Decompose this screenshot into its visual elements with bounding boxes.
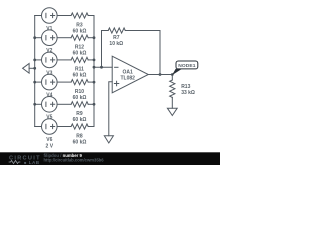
svg-text:V3: V3 (46, 70, 52, 76)
svg-text:33 kΩ: 33 kΩ (181, 90, 195, 96)
wire output to R13 (171, 75, 173, 81)
wire row 4 left lead (35, 81, 42, 83)
svg-text:60 kΩ: 60 kΩ (73, 28, 87, 34)
wire right summing bus (93, 16, 95, 127)
voltage source V4 (42, 74, 58, 90)
resistor R7 (108, 28, 125, 33)
wire row 1 middle lead (57, 15, 71, 17)
ground (left, input common) (23, 64, 30, 74)
wire row 6 right lead (88, 126, 94, 128)
voltage source V3 (42, 52, 58, 68)
junction right bus row 5 (93, 103, 96, 106)
wire row 5 right lead (88, 103, 94, 105)
wire R7 right to output (125, 31, 160, 75)
svg-text:60 kΩ: 60 kΩ (73, 73, 87, 79)
wire row 3 middle lead (57, 59, 71, 61)
voltage source V2 (42, 30, 58, 46)
wire row 5 middle lead (57, 103, 71, 105)
junction R7 to inverting input (100, 66, 103, 69)
junction output node (171, 73, 174, 76)
wire row 3 left lead (35, 59, 42, 61)
wire R7 left vertical (102, 31, 109, 68)
voltage source V5 (42, 97, 58, 113)
junction left bus row 4 (33, 81, 36, 84)
svg-text:2 V: 2 V (46, 143, 54, 149)
junction ground tap (33, 67, 36, 70)
resistor R11 (71, 57, 88, 62)
wire row 5 left lead (35, 103, 42, 105)
svg-text:NODE1: NODE1 (178, 63, 196, 69)
wire row 6 left lead (35, 126, 42, 128)
svg-text:60 kΩ: 60 kΩ (73, 51, 87, 57)
wire left bus (34, 16, 36, 127)
wire non-inverting input to ground (109, 82, 112, 136)
junction left bus row 3 (33, 59, 36, 62)
node NODE1 flag (172, 69, 182, 76)
junction right bus row 2 (93, 36, 96, 39)
wire op-amp output (148, 74, 172, 76)
ground (below R13) (167, 108, 177, 115)
svg-text:http://circuitlab.com/cwm35b6: http://circuitlab.com/cwm35b6 (44, 158, 105, 163)
svg-text:V1: V1 (46, 26, 52, 32)
ground (op-amp non-inverting) (104, 136, 113, 143)
svg-text:10 kΩ: 10 kΩ (109, 41, 123, 47)
wire row 4 right lead (88, 81, 94, 83)
voltage source V6 (42, 119, 58, 135)
resistor R12 (71, 35, 88, 40)
svg-text:60 kΩ: 60 kΩ (73, 95, 87, 101)
svg-text:V2: V2 (46, 48, 52, 54)
wire row 6 middle lead (57, 126, 71, 128)
wire row 2 left lead (35, 37, 42, 39)
resistor R3 (71, 13, 88, 18)
junction summing node (93, 66, 96, 69)
wire inverting input (94, 66, 112, 68)
svg-text:60 kΩ: 60 kΩ (73, 139, 87, 145)
resistor R13 (170, 80, 175, 97)
junction left bus row 5 (33, 103, 36, 106)
wire row 4 middle lead (57, 81, 71, 83)
resistor R9 (71, 102, 88, 107)
op-amp OA1 TL082 (112, 56, 148, 93)
wire row 3 right lead (88, 59, 94, 61)
voltage source V1 (42, 8, 58, 24)
junction right bus row 3 (93, 59, 96, 62)
junction feedback-output (159, 73, 162, 76)
wire row 1 left lead (35, 15, 42, 17)
CircuitLab logo (9, 155, 41, 165)
junction right bus row 4 (93, 81, 96, 84)
resistor R8 (71, 124, 88, 129)
watermark bar (0, 152, 220, 165)
svg-text:LAB: LAB (29, 160, 40, 165)
wire R13 to ground (171, 97, 173, 108)
wire row 1 right lead (88, 15, 94, 17)
wire ground tap (29, 67, 35, 69)
svg-text:V6: V6 (46, 137, 52, 143)
resistor R10 (71, 80, 88, 85)
wire row 2 middle lead (57, 37, 71, 39)
svg-text:V5: V5 (46, 115, 52, 121)
junction left bus row 2 (33, 36, 36, 39)
svg-text:V4: V4 (46, 93, 52, 99)
svg-text:TL082: TL082 (120, 75, 135, 81)
wire row 2 right lead (88, 37, 94, 39)
svg-text:60 kΩ: 60 kΩ (73, 117, 87, 123)
